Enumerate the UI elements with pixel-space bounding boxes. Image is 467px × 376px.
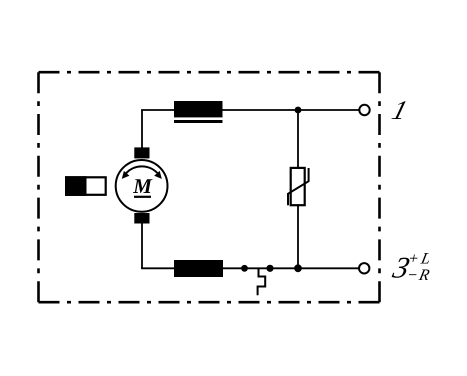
varistor R1 [288,168,309,205]
wire: right branch vertical (junction to junction) [297,110,299,268]
svg-text:−R: −R [405,267,432,284]
junction dot (bottom rail, left) [241,265,248,272]
label: terminal 1 [389,95,411,125]
brush (top) [134,147,149,158]
junction dot (bottom rail / right branch) [294,264,302,272]
wire: top rail to terminal 1 [141,109,359,111]
wire: motor top to top rail corner [141,110,143,149]
enclosure border (dash-dot frame) [39,72,380,302]
junction dot (top rail / right branch) [295,107,302,114]
terminal 1 (open circle) [359,105,369,115]
label: terminal 3 +L / -R [389,251,435,285]
permanent magnet (half-filled rectangle) [65,176,106,196]
svg-text:+L: +L [406,251,435,268]
terminal 3 (open circle) [359,263,369,273]
limit-switch / park contact step symbol [258,268,266,295]
rotation arrow (both directions) [125,166,159,174]
brush (bottom) [134,213,149,224]
wire: motor bottom to bottom rail corner [141,222,143,268]
wire: bottom rail to terminal 3 [141,267,359,269]
suppression choke L1 (top, with core bar) [174,101,223,123]
motor M1 [116,147,168,223]
svg-text:M: M [132,174,153,198]
junction dot (bottom rail, middle) [266,265,273,272]
suppression choke L2 (bottom) [174,260,223,277]
